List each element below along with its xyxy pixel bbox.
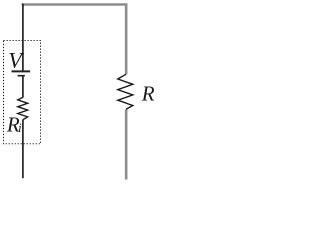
- wire: left vertical lower (Ri to bottom): [22, 120, 24, 179]
- svg-text:R: R: [141, 82, 155, 106]
- svg-text:V: V: [8, 48, 24, 73]
- wire: top horizontal + right vertical upper (gray): [22, 5, 127, 75]
- resistor R (zigzag): [118, 74, 133, 109]
- wire: left vertical upper (top corner to battery): [22, 4, 24, 71]
- dashed box (real source enclosure): [4, 41, 41, 144]
- battery V: short plate: [18, 75, 25, 77]
- wire: right vertical lower (gray): [125, 109, 128, 179]
- resistor Ri (zigzag): [18, 97, 28, 119]
- svg-text:Ri: Ri: [6, 113, 22, 137]
- battery V: long plate: [12, 70, 31, 72]
- wire: battery to resistor Ri: [22, 76, 24, 97]
